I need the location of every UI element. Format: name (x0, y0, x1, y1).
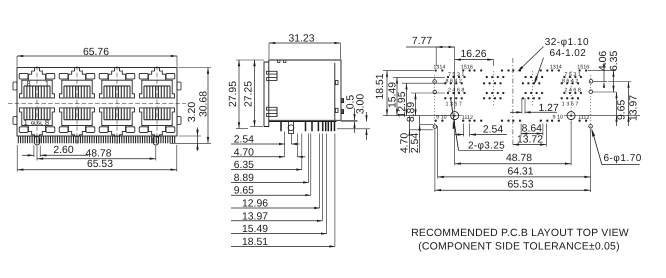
left dimension 12.95 (406, 83, 408, 115)
svg-text:27.95: 27.95 (228, 81, 239, 107)
front view jack column 1 centerline (36, 66, 38, 146)
svg-text:31.23: 31.23 (288, 34, 314, 45)
left dimension 4.70 below reference (409, 116, 411, 153)
dimension 27.95 height (238, 60, 240, 129)
svg-text:1314: 1314 (433, 64, 445, 70)
svg-text:13.97: 13.97 (629, 95, 640, 121)
front view mounting post left (34, 136, 40, 145)
svg-text:8.89: 8.89 (234, 173, 254, 184)
pcb shield hole left lower (433, 90, 437, 94)
pcb hole group 4 (551, 69, 587, 122)
pcb group 1 centerline (454, 71, 456, 125)
left dimension 18.51 (386, 71, 388, 116)
pcb mounting hole phi3.25 left (451, 112, 459, 120)
svg-text:(COMPONENT SIDE TOLERANCE±0.05: (COMPONENT SIDE TOLERANCE±0.05) (418, 241, 620, 253)
dimension 48.78 hole spacing (454, 121, 456, 166)
dimension 2.60 post width (33, 146, 35, 158)
left dimension 8.89 (415, 93, 417, 116)
pcb left shield hole column centerline (434, 75, 436, 133)
svg-text:1: 1 (45, 79, 49, 88)
pcb overall centerline (512, 58, 514, 147)
pcb shield hole right upper (589, 80, 593, 84)
svg-text:8.89: 8.89 (406, 102, 417, 122)
front view bottom-row jack port 8 (148, 126, 165, 137)
side view flange hole bottom (335, 108, 338, 112)
side view pin position reference line (284, 132, 286, 157)
svg-text:9 10: 9 10 (553, 115, 564, 121)
pin position dimension 9.65 (310, 134, 312, 196)
svg-text:13.97: 13.97 (242, 211, 268, 222)
svg-text:65.76: 65.76 (83, 47, 109, 58)
svg-text:2 4 6 8: 2 4 6 8 (448, 87, 465, 93)
svg-text:1112: 1112 (578, 115, 589, 121)
svg-text:1112: 1112 (462, 115, 473, 121)
dimension 65.53 hole field width (434, 130, 436, 193)
pcb group 3 centerline (531, 71, 533, 107)
right reference extension line (579, 115, 641, 117)
svg-text:7 5 3 1: 7 5 3 1 (448, 72, 465, 78)
svg-text:65.53: 65.53 (87, 159, 113, 170)
dimension 1.27 (521, 98, 523, 114)
svg-text:9.65: 9.65 (617, 100, 628, 120)
dimension 30.68 overall height (207, 68, 209, 144)
side view body outline (264, 60, 341, 127)
front view bottom-row jack port 5 (28, 126, 45, 137)
svg-text:3.00: 3.00 (356, 94, 367, 114)
svg-text:GLGL: GLGL (31, 121, 44, 126)
front view top-row jack port 1 (28, 68, 45, 81)
front view top-row jack port 4 (148, 68, 165, 81)
right dimension 6.35 (613, 71, 615, 92)
svg-text:4.70: 4.70 (234, 147, 254, 158)
pin position dimension 18.51 (334, 134, 336, 247)
svg-text:1516: 1516 (577, 64, 589, 70)
pcb group 1 pin numbers (433, 64, 473, 121)
front view right side tab top (177, 82, 181, 90)
svg-text:4.70: 4.70 (400, 133, 411, 153)
dimension 0.5 flange offset (341, 119, 358, 121)
dimension 8.64 (520, 124, 522, 136)
right dimension 13.97 (628, 82, 630, 127)
svg-text:18.51: 18.51 (375, 73, 386, 99)
front view top-row jack port 2 (68, 68, 85, 81)
pcb right shield hole column centerline (590, 75, 592, 133)
pin position dimension 13.97 (322, 134, 324, 221)
dimension 27.25 height (254, 60, 256, 127)
front view bottom-row jack port 7 (108, 126, 125, 137)
pcb group 2 centerline (493, 71, 495, 107)
front view pin comb (18, 136, 174, 143)
pin position dimension 4.70 (296, 134, 298, 157)
front view body outline (17, 68, 177, 137)
dimension 3.00 pin length (337, 128, 370, 130)
dimension 2.54 pin pitch (463, 124, 465, 137)
svg-text:6.35: 6.35 (234, 160, 254, 171)
dimension 65.53 pin field width (16, 145, 18, 172)
svg-text:8 6 4 2: 8 6 4 2 (445, 79, 462, 85)
svg-text:1.27: 1.27 (539, 103, 559, 114)
right dimension 4.06 (603, 63, 605, 82)
svg-text:7.77: 7.77 (412, 36, 432, 47)
pcb hole group 3 (512, 69, 548, 122)
front view jack column 3 centerline (116, 66, 118, 146)
dimension 31.23 depth (269, 42, 341, 44)
svg-text:6-φ1.70: 6-φ1.70 (604, 153, 642, 164)
pcb shield hole left bottom (433, 125, 437, 129)
side view mounting post (289, 122, 294, 134)
svg-text:27.25: 27.25 (244, 81, 255, 107)
pcb group 4 pin numbers (550, 64, 590, 121)
pin position dimension 6.35 (301, 134, 303, 170)
svg-text:4.06: 4.06 (598, 51, 609, 71)
svg-text:8 6 4 2: 8 6 4 2 (562, 79, 579, 85)
pin position dimension 8.89 (308, 134, 310, 183)
svg-text:1516: 1516 (461, 64, 473, 70)
svg-text:15.49: 15.49 (242, 224, 268, 235)
dimension 13.72 (545, 124, 547, 147)
side view body bottom edge (269, 121, 337, 123)
front view jack column 4 centerline (156, 66, 158, 146)
svg-text:1 3 5 7: 1 3 5 7 (562, 102, 579, 108)
right dimension 9.65 (616, 92, 618, 126)
svg-text:2.54: 2.54 (483, 125, 503, 136)
svg-text:2-φ3.25: 2-φ3.25 (468, 140, 505, 151)
pcb hole group 2 (473, 69, 509, 122)
pcb shield hole right lower (589, 90, 593, 94)
svg-text:2.54: 2.54 (234, 135, 254, 146)
front view left side tab bottom (13, 117, 17, 125)
svg-text:30.68: 30.68 (199, 91, 210, 117)
front view top-row jack port 3 (108, 68, 125, 81)
dimension 64.31 (437, 126, 439, 179)
front view jack column 2 centerline (76, 66, 78, 146)
svg-text:32-φ1.10: 32-φ1.10 (545, 37, 589, 48)
svg-text:13.72: 13.72 (517, 135, 543, 146)
pcb shield hole left upper (433, 80, 437, 84)
pin position dimension 12.96 (319, 134, 321, 209)
svg-text:48.78: 48.78 (85, 148, 111, 159)
front view bottom-row jack port 6 (68, 126, 85, 137)
dimension 16.26 (455, 59, 494, 61)
left reference extension line (383, 115, 450, 117)
pin position dimension 2.54 (290, 134, 292, 145)
pcb hole group 1 (435, 69, 471, 122)
dimension 48.78 post spacing (36, 146, 38, 161)
svg-text:8: 8 (27, 79, 31, 88)
svg-text:8: 8 (45, 118, 49, 127)
front view row divider centerline (8, 102, 186, 104)
side view latch hook top (267, 71, 278, 74)
side view flange tab top (341, 99, 344, 103)
side view pins (281, 122, 335, 132)
svg-text:64-1.02: 64-1.02 (550, 48, 587, 59)
dimension 65.76 overall width (17, 55, 177, 57)
front view left side tab top (13, 82, 17, 90)
pcb group 4 centerline (570, 71, 572, 125)
side view flange tab bottom (341, 110, 344, 114)
svg-text:RECOMMENDED P.C.B LAYOUT TOP V: RECOMMENDED P.C.B LAYOUT TOP VIEW (411, 227, 629, 239)
svg-text:18.51: 18.51 (242, 237, 268, 248)
side view top edge detail (278, 60, 280, 63)
svg-text:16.26: 16.26 (460, 49, 486, 60)
svg-text:7 5 3 1: 7 5 3 1 (564, 72, 581, 78)
left dimension 15.49 (396, 77, 398, 115)
svg-text:6.35: 6.35 (609, 51, 620, 71)
front view right side tab bottom (177, 117, 181, 125)
svg-text:1314: 1314 (550, 64, 562, 70)
svg-text:65.53: 65.53 (507, 180, 533, 191)
front view mounting post right (153, 136, 159, 145)
pcb shield hole right bottom (589, 125, 593, 129)
svg-text:9.65: 9.65 (234, 186, 254, 197)
svg-text:1: 1 (24, 118, 28, 127)
pin position dimension 15.49 (326, 134, 328, 234)
svg-text:2.54: 2.54 (410, 133, 421, 153)
dimension 7.77 (406, 46, 455, 48)
svg-text:2.60: 2.60 (53, 145, 73, 156)
dimension 3.20 pin protrusion (197, 128, 199, 152)
svg-text:2 4 6 8: 2 4 6 8 (564, 87, 581, 93)
svg-text:8.64: 8.64 (522, 123, 542, 134)
left dimension 2.54 below reference (419, 116, 421, 153)
svg-text:12.96: 12.96 (242, 199, 268, 210)
svg-text:64.31: 64.31 (507, 166, 533, 177)
svg-text:3.20: 3.20 (187, 102, 198, 122)
side view latch hook bottom (267, 107, 278, 110)
svg-text:1 3 5 7: 1 3 5 7 (445, 102, 462, 108)
pcb mounting hole phi3.25 right (567, 112, 575, 120)
svg-text:48.78: 48.78 (506, 153, 532, 164)
side view flange hole top (335, 81, 338, 85)
